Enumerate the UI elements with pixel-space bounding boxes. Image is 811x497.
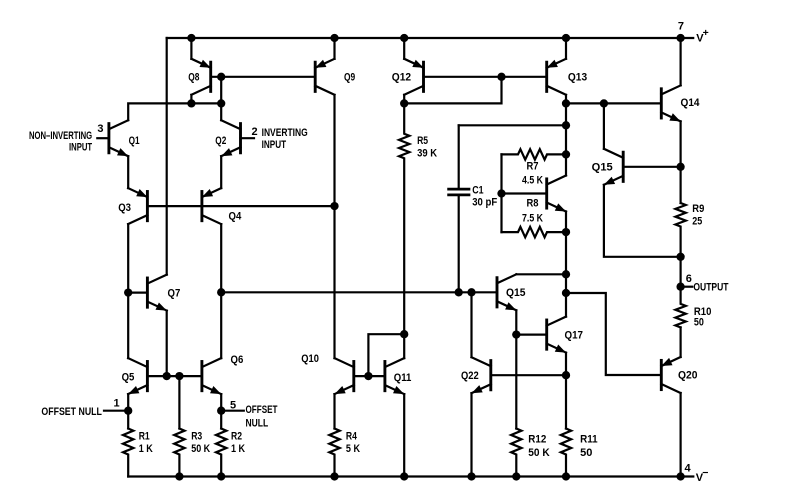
pin number 1 — [114, 398, 120, 410]
wire R10 to Q20 emitter — [679, 327, 681, 357]
junction R3 bottom — [175, 472, 183, 480]
wire Q14 collector to V+ — [679, 38, 681, 85]
svg-text:Q6: Q6 — [231, 354, 244, 366]
wire Q7 emitter drop — [166, 311, 168, 377]
svg-text:7.5 K: 7.5 K — [522, 213, 543, 225]
wire R3 riser — [178, 376, 180, 428]
wire Q10-Q11 base tie riser — [368, 334, 404, 376]
wire Q14 base line — [566, 102, 661, 104]
transistor Q15 second stage — [497, 274, 516, 310]
wire Q12-Q13 base line — [424, 76, 547, 78]
junction Q15 emitter / Q17 base — [512, 330, 520, 338]
junction R12 bottom — [512, 472, 520, 480]
pin number 7 — [678, 20, 684, 32]
pin number 5 — [230, 400, 236, 412]
resistor R3 — [174, 429, 184, 477]
wire VBE multiplier base stub — [502, 192, 547, 194]
wire Q9 emitter from rail — [333, 38, 335, 59]
label R4 value — [346, 431, 360, 456]
wire pin2 stub from Q2 base — [241, 137, 255, 139]
wire Q9 collector to Q10 collector — [333, 95, 335, 358]
transistor Q17 — [547, 317, 566, 353]
svg-text:R2: R2 — [231, 431, 242, 443]
wire Q6 emitter to pin5 — [220, 394, 222, 428]
transistor Q7 — [147, 275, 166, 311]
junction Q4-Q6 collectors — [217, 288, 225, 296]
transistor Q3 — [128, 188, 147, 224]
label R7 value — [522, 161, 543, 187]
junction Q22 emitter / V- — [467, 472, 475, 480]
svg-text:Q5: Q5 — [122, 372, 135, 384]
junction Q9-Q10 collector / Q3-Q4 base — [330, 202, 338, 210]
label Q15 second stage — [506, 287, 526, 299]
wire Q17 collector to Q20 base — [566, 293, 661, 375]
label R3 value — [191, 431, 210, 456]
label Q10 — [301, 353, 319, 365]
label R8 value — [522, 198, 543, 225]
transistor Q11 — [385, 358, 404, 394]
wire Q12 base-collector tie — [404, 77, 501, 104]
junction R5 / Q10-Q11 base — [400, 330, 408, 338]
label V- — [696, 467, 709, 484]
svg-text:Q13: Q13 — [568, 72, 587, 84]
junction Q12-Q13 base line — [497, 73, 505, 81]
junction Q11 emitter / V- — [400, 472, 408, 480]
svg-text:30 pF: 30 pF — [472, 197, 497, 209]
junction Q8 base line — [217, 73, 225, 81]
svg-text:R9: R9 — [692, 203, 704, 215]
label R11 value — [580, 434, 598, 460]
svg-text:C1: C1 — [472, 184, 483, 196]
pin number 2 — [252, 126, 258, 138]
label OFFSET NULL pin1 — [41, 406, 102, 418]
svg-text:5 K: 5 K — [346, 443, 360, 455]
svg-text:OFFSET NULL: OFFSET NULL — [41, 406, 102, 418]
wire Q10-Q11 base line — [354, 375, 385, 377]
label Q14 — [681, 97, 701, 109]
label Q2 — [215, 135, 226, 147]
capacitor C1 — [449, 189, 469, 195]
svg-text:R7: R7 — [527, 161, 539, 173]
label Q1 — [129, 135, 140, 147]
junction pin 5 — [217, 407, 225, 415]
junction Q9 emitter / V+ — [330, 34, 338, 42]
svg-text:OFFSET: OFFSET — [246, 404, 278, 416]
wire Q13 collector chain — [565, 95, 567, 176]
svg-text:Q14: Q14 — [681, 97, 701, 109]
svg-text:Q10: Q10 — [301, 353, 319, 365]
resistor R11 — [561, 429, 571, 477]
svg-text:Q8: Q8 — [188, 72, 199, 84]
junction R8 right — [562, 228, 570, 236]
transistor Q10 — [335, 358, 354, 394]
junction Q22 collector — [467, 288, 475, 296]
label Q8 — [188, 72, 199, 84]
wire Q10 emitter to R4 — [333, 394, 335, 428]
junction C1 bottom — [455, 288, 463, 296]
wire Q2 emitter to Q4 — [220, 156, 222, 188]
wire Q22 base line — [491, 374, 566, 376]
wire Q8 base riser — [220, 77, 222, 104]
svg-text:39 K: 39 K — [417, 148, 437, 160]
svg-text:OUTPUT: OUTPUT — [693, 281, 728, 293]
junction Q13 collector — [562, 99, 570, 107]
junction Q7 base / Q3 collector — [124, 288, 132, 296]
label R9 value — [692, 203, 704, 228]
transistor Q9 — [315, 59, 334, 95]
resistor R2 — [216, 429, 226, 477]
junction R9 bottom / Q15 emitter — [676, 253, 684, 261]
label R12 value — [528, 434, 549, 460]
svg-text:50: 50 — [694, 317, 704, 329]
svg-text:Q22: Q22 — [461, 370, 479, 382]
wire pin5 stub — [221, 410, 244, 412]
wire Q20 collector to V- — [679, 393, 681, 477]
svg-text:Q4: Q4 — [229, 210, 243, 222]
label Q9 — [344, 72, 355, 84]
svg-text:3: 3 — [97, 123, 103, 135]
label R10 value — [694, 306, 712, 329]
label Q17 — [565, 329, 584, 341]
label Q6 — [231, 354, 244, 366]
transistor Q8 — [191, 59, 210, 95]
svg-text:Q12: Q12 — [392, 72, 411, 84]
transistor Q4 — [202, 188, 221, 224]
svg-text:Q3: Q3 — [118, 202, 131, 214]
junction C1 top — [562, 121, 570, 129]
wire pin6 stub — [681, 286, 693, 288]
svg-text:−: − — [702, 467, 708, 479]
wire Q3-Q4 base line — [147, 205, 334, 207]
svg-text:R1: R1 — [139, 431, 150, 443]
transistor Q5 — [128, 358, 147, 394]
resistor R9 — [675, 203, 685, 257]
svg-text:R8: R8 — [527, 198, 539, 210]
junction Q10-Q11 base tie — [364, 372, 372, 380]
junction Q13 emitter / V+ — [562, 34, 570, 42]
junction Q15 collector / Q14 base — [600, 99, 608, 107]
wire Q8 emitter from rail — [190, 38, 192, 59]
svg-text:Q17: Q17 — [565, 329, 584, 341]
wire Q15 collector line — [516, 273, 566, 275]
wire Q1 emitter to Q3 — [127, 156, 129, 188]
svg-text:1 K: 1 K — [139, 443, 153, 455]
wire Q17 emitter drop — [565, 353, 567, 429]
pin number 3 — [97, 123, 103, 135]
label R1 value — [139, 431, 153, 456]
wire Q15 emitter to output — [604, 185, 681, 257]
transistor Q15 current limit — [604, 149, 623, 185]
junction pin 7 V+ — [676, 34, 684, 42]
svg-text:50 K: 50 K — [191, 443, 210, 455]
svg-text:4: 4 — [685, 463, 692, 475]
svg-text:Q20: Q20 — [678, 369, 698, 381]
junction Q8 base / Q2 collector — [217, 99, 225, 107]
wire pin1 stub — [104, 410, 128, 412]
label NON-INVERTING INPUT — [29, 130, 92, 153]
transistor Q13 — [547, 59, 566, 95]
svg-text:NULL: NULL — [246, 418, 269, 430]
resistor R10 — [675, 287, 685, 328]
wire Q8-Q9 base line — [211, 76, 316, 78]
junction VBE multiplier base — [497, 189, 505, 197]
label Q5 — [122, 372, 135, 384]
wire second stage input line — [221, 291, 497, 293]
label Q13 — [568, 72, 587, 84]
wire C1 bottom lead — [458, 195, 460, 292]
svg-text:NON–INVERTING: NON–INVERTING — [29, 130, 92, 142]
label Q20 — [678, 369, 698, 381]
junction Q12 emitter / V+ — [400, 34, 408, 42]
label Q22 — [461, 370, 479, 382]
wire Q8 collector drop — [190, 95, 192, 104]
label R2 value — [231, 431, 245, 456]
junction R7 right — [562, 150, 570, 158]
svg-text:R3: R3 — [191, 431, 202, 443]
svg-text:R12: R12 — [528, 434, 546, 446]
wire Q15 emitter drop — [515, 310, 517, 428]
wire C1 top line — [459, 124, 566, 126]
svg-text:Q15: Q15 — [592, 161, 613, 173]
label Q15 current limit — [592, 161, 613, 173]
junction Q8 emitter / V+ — [187, 34, 195, 42]
wire Q2 collector riser — [220, 103, 222, 120]
svg-text:Q1: Q1 — [129, 135, 140, 147]
wire V+ rail — [167, 37, 694, 39]
label INVERTING INPUT — [262, 127, 308, 151]
label Q4 — [229, 210, 243, 222]
junction R4 bottom — [330, 472, 338, 480]
svg-text:INVERTING: INVERTING — [262, 127, 308, 139]
svg-text:2: 2 — [252, 126, 258, 138]
svg-text:4.5 K: 4.5 K — [522, 174, 543, 186]
wire VBE emitter to Q17 collector — [565, 212, 567, 317]
wire Q11 emitter drop — [403, 394, 405, 476]
junction Q7 emitter / Q5 base — [163, 372, 171, 380]
wire Q5 emitter to pin1 — [127, 394, 129, 428]
wire V- rail — [128, 475, 693, 477]
svg-text:Q7: Q7 — [168, 287, 181, 299]
svg-text:Q15: Q15 — [506, 287, 526, 299]
svg-text:Q2: Q2 — [215, 135, 226, 147]
label OUTPUT — [693, 281, 728, 293]
svg-text:5: 5 — [230, 400, 236, 412]
wire Q4 collector drop — [220, 224, 222, 292]
resistor R7 — [502, 149, 567, 159]
junction R5 top — [400, 99, 408, 107]
pin number 4 — [685, 463, 692, 475]
junction R2 bottom — [217, 472, 225, 480]
svg-text:50: 50 — [580, 447, 592, 459]
wire Q13 emitter from rail — [565, 38, 567, 59]
svg-text:Q11: Q11 — [394, 372, 412, 384]
label OFFSET NULL pin5 — [246, 404, 278, 430]
wire Q15 emitter to Q17 base — [516, 334, 546, 336]
pin number 6 — [686, 273, 692, 285]
wire Q6 collector riser — [220, 292, 222, 358]
svg-text:6: 6 — [686, 273, 692, 285]
resistor R4 — [329, 429, 339, 477]
svg-text:50 K: 50 K — [528, 447, 549, 459]
transistor Q2 — [221, 120, 240, 156]
junction Q14 emitter / Q15 base / R9 — [676, 163, 684, 171]
junction Q15 collector / VBE emitter — [562, 270, 570, 278]
junction Q17 collector / Q20 base — [562, 289, 570, 297]
svg-text:R4: R4 — [346, 431, 358, 443]
junction pin 1 — [124, 407, 132, 415]
wire Q12 collector drop — [403, 95, 405, 104]
svg-text:7: 7 — [678, 20, 684, 32]
resistor R8 — [502, 227, 567, 237]
svg-text:1 K: 1 K — [231, 443, 245, 455]
junction pin 6 output — [676, 283, 684, 291]
transistor Q12 — [404, 59, 423, 95]
label Q11 — [394, 372, 412, 384]
wire Q1 collector riser — [128, 103, 221, 120]
junction R11 bottom — [562, 472, 570, 480]
label V+ — [696, 27, 708, 45]
wire Q7 base stub — [128, 292, 147, 294]
svg-text:R5: R5 — [417, 135, 428, 147]
svg-text:+: + — [703, 27, 709, 39]
wire Q3 collector to Q5 collector — [127, 224, 129, 358]
junction Q17 emitter / Q22 base — [562, 371, 570, 379]
wire Q22 collector riser — [470, 292, 472, 357]
svg-text:Q9: Q9 — [344, 72, 355, 84]
wire Q12 emitter from rail — [403, 38, 405, 59]
wire C1 top lead — [458, 125, 460, 189]
svg-text:INPUT: INPUT — [262, 139, 287, 151]
svg-text:1: 1 — [114, 398, 120, 410]
label R5 value — [417, 135, 437, 160]
wire Q14 emitter to R9 — [679, 121, 681, 203]
wire Q5-Q6 base line — [147, 375, 202, 377]
resistor R5 — [399, 103, 409, 358]
label C1 value — [472, 184, 497, 208]
wire Q22 emitter drop — [470, 393, 472, 476]
svg-text:INPUT: INPUT — [69, 142, 92, 154]
label Q12 — [392, 72, 411, 84]
resistor R1 — [123, 429, 133, 477]
transistor Q20 — [661, 357, 680, 393]
wire V+ to Q7 collector — [166, 38, 168, 275]
svg-text:R11: R11 — [580, 434, 598, 446]
transistor Q22 — [472, 357, 491, 393]
transistor Q14 — [661, 85, 680, 121]
junction Q8 collector — [187, 99, 195, 107]
transistor VBE multiplier — [547, 176, 566, 212]
label Q3 — [118, 202, 131, 214]
wire R7-R8 left vertical — [500, 154, 502, 232]
transistor Q1 — [109, 120, 128, 156]
resistor R12 — [511, 429, 521, 477]
wire pin3 stub to Q1 base — [97, 137, 109, 139]
junction pin 4 V- — [676, 472, 684, 480]
transistor Q6 — [202, 358, 221, 394]
wire Q15 base line — [623, 166, 680, 168]
svg-text:25: 25 — [692, 216, 702, 228]
wire R9 to pin6 — [679, 257, 681, 287]
label Q7 — [168, 287, 181, 299]
wire Q15 collector riser — [603, 103, 605, 148]
junction R3 top — [175, 372, 183, 380]
